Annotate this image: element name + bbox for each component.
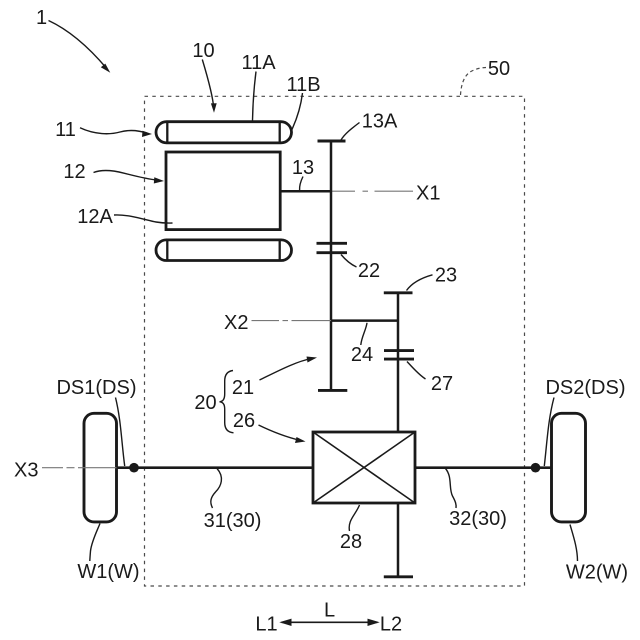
svg-text:21: 21: [232, 377, 254, 399]
leader for 31(30): [211, 469, 222, 509]
stator bottom cap chord right: [279, 240, 281, 261]
counter shaft 21 bottom bar: [318, 389, 347, 392]
axis X1 dash-dot: [331, 190, 413, 192]
leader for 12A: [114, 215, 173, 223]
stator coil top 11A: [156, 122, 292, 143]
mesh line 24: [331, 319, 398, 322]
svg-text:28: 28: [340, 531, 362, 553]
svg-text:32(30): 32(30): [449, 508, 507, 530]
axle 31 left: [117, 466, 314, 469]
leader for DS1: [116, 398, 125, 467]
svg-text:31(30): 31(30): [204, 510, 262, 532]
rotor box 12: [166, 152, 280, 230]
arrow for 26: [259, 425, 301, 440]
leader for DS2: [544, 398, 554, 467]
svg-text:12: 12: [63, 161, 85, 183]
axis X2 dash-dot: [252, 320, 332, 322]
leader for 22: [341, 255, 357, 268]
svg-text:L2: L2: [380, 614, 402, 636]
gear 13A top bar: [318, 140, 346, 143]
svg-text:W2(W): W2(W): [566, 562, 628, 584]
node dot DS1: [129, 463, 139, 473]
svg-text:13: 13: [292, 157, 314, 179]
leader for 23: [407, 275, 433, 291]
wheel W2: [552, 413, 586, 522]
leader for 32(30): [446, 469, 457, 509]
axle 32 right: [415, 466, 552, 469]
svg-text:26: 26: [233, 410, 255, 432]
leader for W1: [90, 524, 100, 562]
stator coil bottom: [156, 240, 292, 261]
svg-text:11: 11: [55, 119, 76, 141]
arrow for 21: [260, 359, 312, 381]
differential box 26: [313, 432, 415, 503]
svg-text:27: 27: [431, 373, 453, 395]
leader for 13A: [341, 123, 360, 141]
gear mesh 27 bars: [384, 349, 414, 352]
svg-text:23: 23: [435, 265, 457, 287]
svg-text:X3: X3: [14, 460, 38, 482]
node dot DS2: [531, 463, 541, 473]
leader for 11B: [291, 93, 303, 132]
svg-text:22: 22: [358, 260, 380, 282]
svg-text:10: 10: [192, 40, 214, 62]
leader for 13: [300, 177, 303, 191]
arrow for 11: [80, 128, 148, 134]
output shaft bottom bar: [384, 575, 413, 578]
leader for 28: [349, 505, 359, 531]
svg-text:13A: 13A: [362, 111, 398, 133]
leader for 24: [361, 323, 367, 345]
leader for W2: [570, 525, 578, 562]
dashed leader for 50: [461, 68, 488, 96]
brace for group 20: [220, 371, 234, 433]
svg-text:1: 1: [36, 7, 47, 29]
gear 23 top bar: [384, 291, 413, 294]
axis X3 dash-dot: [42, 467, 134, 469]
dimension arrow L: [282, 621, 378, 623]
gear mesh 22 bars: [317, 242, 348, 245]
svg-text:L1: L1: [255, 614, 277, 636]
svg-text:X1: X1: [416, 183, 440, 205]
svg-text:X2: X2: [224, 312, 248, 334]
shaft of gear 23/27 vertical: [397, 293, 400, 577]
leader for 11A: [253, 72, 257, 121]
svg-text:DS2(DS): DS2(DS): [545, 377, 625, 399]
leader for 27: [407, 362, 426, 380]
svg-text:11B: 11B: [286, 74, 320, 96]
arrow for 12: [94, 171, 158, 181]
svg-text:50: 50: [488, 58, 510, 80]
stator top cap chord left: [166, 122, 168, 143]
stator top cap chord right: [279, 122, 281, 143]
arrow for 10: [202, 60, 213, 109]
differential cross diagonal 2: [313, 432, 415, 503]
svg-text:24: 24: [351, 344, 373, 366]
svg-text:L: L: [324, 600, 335, 622]
svg-text:11A: 11A: [241, 52, 276, 74]
wheel W1: [84, 413, 117, 522]
leader arrow for 1: [49, 21, 111, 73]
differential cross diagonal 1: [313, 432, 415, 503]
counter shaft 21 vertical: [330, 141, 333, 390]
svg-text:W1(W): W1(W): [77, 561, 139, 583]
svg-text:12A: 12A: [77, 206, 113, 228]
svg-text:DS1(DS): DS1(DS): [56, 377, 136, 399]
stator bottom cap chord left: [166, 240, 168, 261]
svg-text:20: 20: [194, 392, 216, 414]
rotor shaft 13: [279, 190, 331, 193]
dashed boundary box 50: [145, 96, 525, 586]
